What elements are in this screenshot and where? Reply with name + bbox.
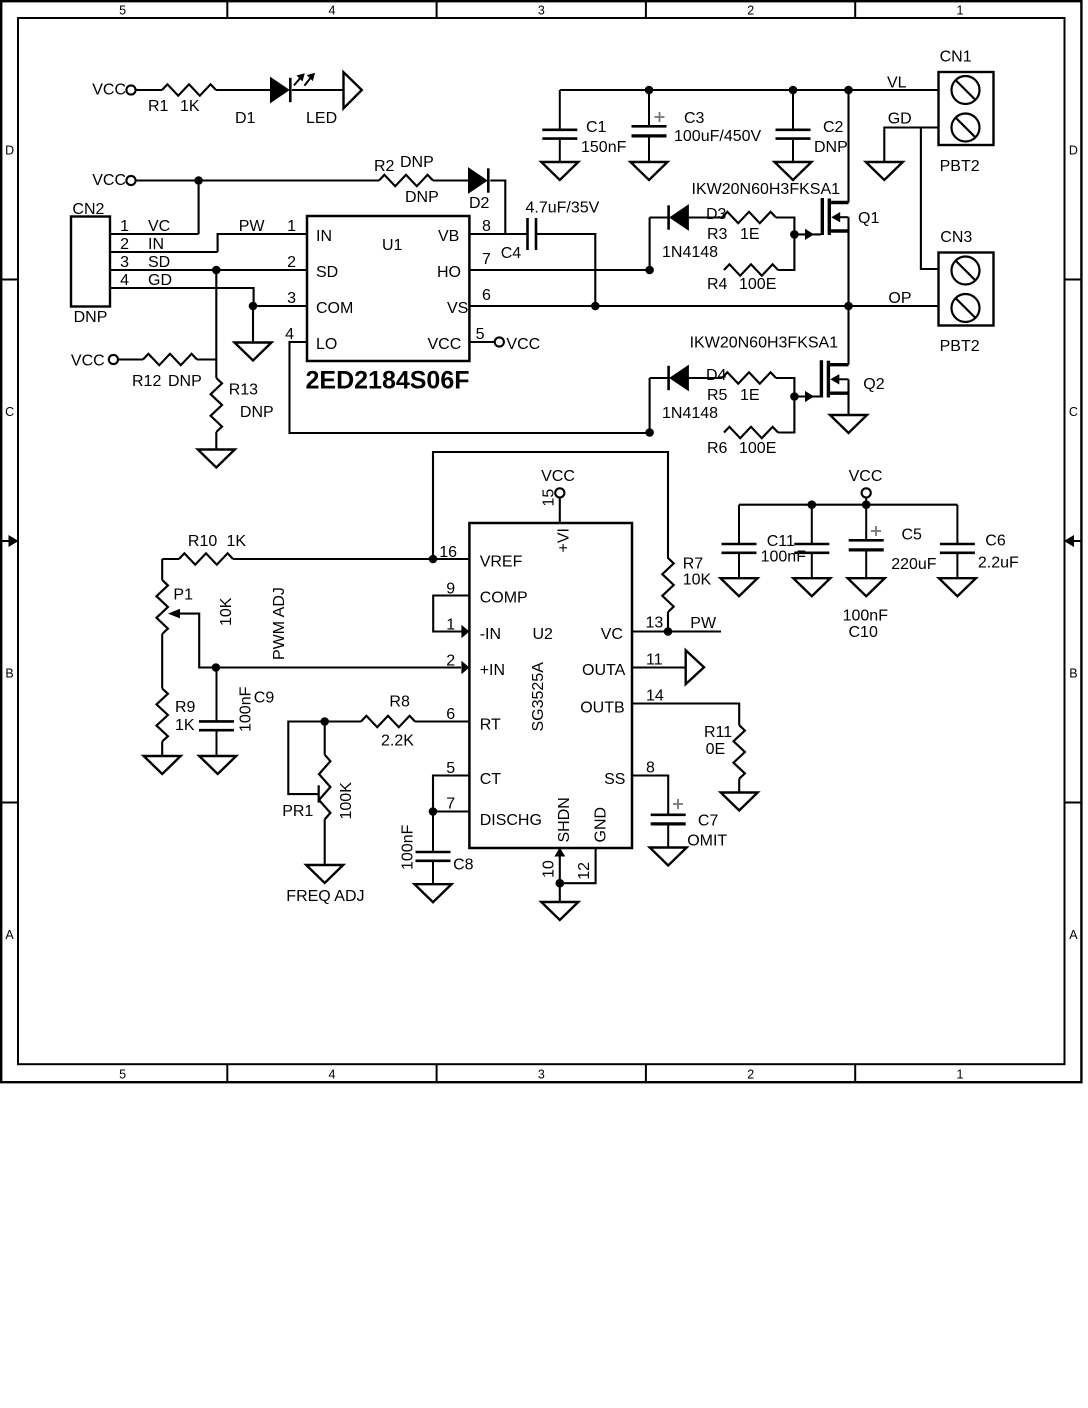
svg-text:R4: R4 <box>707 276 728 293</box>
svg-text:C: C <box>5 405 14 419</box>
svg-text:IN: IN <box>316 228 332 245</box>
junction node COM/GD <box>249 302 258 311</box>
svg-text:+VI: +VI <box>556 528 573 552</box>
svg-text:C7: C7 <box>698 813 719 830</box>
ground <box>866 162 903 180</box>
svg-text:R13: R13 <box>229 382 258 399</box>
svg-text:CN2: CN2 <box>72 201 104 218</box>
svg-text:OP: OP <box>888 290 911 307</box>
resistor R1 <box>162 84 216 95</box>
port flag LED <box>344 72 362 108</box>
junction node VC <box>664 627 673 636</box>
svg-text:D: D <box>5 143 14 157</box>
svg-text:100nF: 100nF <box>238 686 255 732</box>
svg-text:R3: R3 <box>707 226 728 243</box>
ground <box>848 578 885 596</box>
junction node Q2 gate <box>790 392 799 401</box>
svg-text:6: 6 <box>482 287 491 304</box>
svg-text:100nF: 100nF <box>843 608 889 625</box>
wire <box>136 89 162 91</box>
wire to ground <box>252 306 254 343</box>
svg-text:C1: C1 <box>586 119 607 136</box>
svg-text:IKW20N60H3FKSA1: IKW20N60H3FKSA1 <box>692 181 841 198</box>
wire COM <box>253 305 307 307</box>
wire <box>136 179 379 181</box>
svg-text:5: 5 <box>446 760 455 777</box>
wire gate lead Q2 <box>794 395 820 397</box>
junction node C3 <box>645 86 654 95</box>
svg-text:VCC: VCC <box>92 172 126 189</box>
capacitor C3 <box>648 90 650 126</box>
svg-text:3: 3 <box>538 1068 545 1082</box>
svg-text:OMIT: OMIT <box>687 833 727 850</box>
U2 pin 13 VC <box>632 630 721 632</box>
CN2 pin 3 SD <box>110 269 307 271</box>
svg-text:PW: PW <box>239 218 266 235</box>
svg-text:R2: R2 <box>374 158 395 175</box>
U2 pin 6 RT <box>415 720 469 722</box>
resistor R10 <box>179 553 233 564</box>
svg-text:1E: 1E <box>740 387 760 404</box>
svg-text:R1: R1 <box>148 98 169 115</box>
svg-text:3: 3 <box>120 254 129 271</box>
wire <box>778 397 794 433</box>
wire VREF to R7 <box>433 452 668 559</box>
CN2 pin 2 IN <box>110 251 218 253</box>
svg-text:PBT2: PBT2 <box>940 158 980 175</box>
svg-text:LED: LED <box>306 110 337 127</box>
junction node C10 <box>808 500 817 509</box>
ground <box>541 162 578 180</box>
diode D4 <box>670 366 688 391</box>
svg-text:DNP: DNP <box>74 309 108 326</box>
wire VCC rail lower <box>739 504 957 506</box>
svg-text:C4: C4 <box>501 245 522 262</box>
U2 pin 14 OUTB <box>632 704 739 726</box>
svg-text:VL: VL <box>887 75 907 92</box>
svg-text:4: 4 <box>120 272 129 289</box>
svg-text:PBT2: PBT2 <box>940 338 980 355</box>
svg-text:9: 9 <box>446 581 455 598</box>
diode D3 <box>670 205 688 230</box>
wire <box>197 358 216 360</box>
svg-text:R6: R6 <box>707 440 728 457</box>
svg-text:R11: R11 <box>704 724 732 741</box>
svg-text:150nF: 150nF <box>581 139 627 156</box>
VCC pin at U2 <box>555 488 564 497</box>
svg-text:2.2uF: 2.2uF <box>978 555 1019 572</box>
svg-text:+IN: +IN <box>480 662 505 679</box>
svg-text:RT: RT <box>480 717 501 734</box>
junction node C2 <box>789 86 798 95</box>
svg-text:2: 2 <box>120 236 129 253</box>
svg-text:16: 16 <box>439 544 457 561</box>
wire VL rail <box>560 89 939 91</box>
ground <box>793 578 830 596</box>
svg-text:0E: 0E <box>706 741 726 758</box>
U2 pin 9 COMP <box>433 596 469 632</box>
svg-text:13: 13 <box>646 615 664 632</box>
resistor R3 <box>722 212 776 223</box>
ground <box>939 578 976 596</box>
junction node VREF <box>429 555 438 564</box>
svg-text:1E: 1E <box>740 226 760 243</box>
capacitor C2 <box>792 90 794 129</box>
ground <box>650 848 687 866</box>
svg-text:1: 1 <box>957 4 964 18</box>
svg-text:DISCHG: DISCHG <box>480 812 542 829</box>
svg-text:OUTB: OUTB <box>580 700 624 717</box>
svg-text:PW: PW <box>690 615 717 632</box>
U1 pin 8 VB <box>469 233 527 235</box>
svg-text:2ED2184S06F: 2ED2184S06F <box>306 367 470 395</box>
P1 wiper <box>168 609 180 619</box>
svg-text:4: 4 <box>285 326 294 343</box>
svg-text:IKW20N60H3FKSA1: IKW20N60H3FKSA1 <box>690 335 839 352</box>
wire <box>667 612 669 632</box>
svg-text:1N4148: 1N4148 <box>662 244 718 261</box>
svg-text:VCC: VCC <box>92 82 126 99</box>
wire <box>778 234 794 270</box>
svg-text:SD: SD <box>148 254 170 271</box>
wire <box>649 218 651 271</box>
svg-text:VCC: VCC <box>541 468 575 485</box>
svg-text:Q1: Q1 <box>858 210 879 227</box>
junction node VS/C4 <box>591 302 600 311</box>
wire VC riser <box>198 181 200 235</box>
svg-text:DNP: DNP <box>814 139 848 156</box>
svg-text:PR1: PR1 <box>282 803 313 820</box>
capacitor C4 <box>526 218 529 250</box>
U1 pin 5 VCC <box>469 341 494 343</box>
junction node Q1 drain <box>844 86 853 95</box>
svg-text:100E: 100E <box>739 276 776 293</box>
svg-text:HO: HO <box>437 264 461 281</box>
junction node DISCHG <box>429 807 438 816</box>
wire <box>324 819 326 865</box>
svg-text:5: 5 <box>119 1068 126 1082</box>
junction node LO <box>645 428 654 437</box>
svg-text:R10: R10 <box>188 533 217 550</box>
svg-text:C10: C10 <box>849 624 878 641</box>
transistor Q1 <box>821 198 824 235</box>
diode D2 <box>469 168 487 193</box>
svg-text:100uF/450V: 100uF/450V <box>674 128 762 145</box>
svg-text:10K: 10K <box>683 572 712 589</box>
U2 pin 2 +IN <box>216 666 461 668</box>
resistor R11 <box>734 725 745 779</box>
svg-text:DNP: DNP <box>168 373 202 390</box>
svg-text:R7: R7 <box>683 556 704 573</box>
wire GD <box>884 128 938 162</box>
U2 pin 16 VREF <box>433 558 469 560</box>
svg-text:GD: GD <box>888 111 912 128</box>
wire gate lead Q1 <box>794 233 821 235</box>
U2 pin 7 DISCHG <box>433 810 469 812</box>
svg-text:4: 4 <box>329 4 336 18</box>
svg-text:5: 5 <box>476 326 485 343</box>
wire Q2 drain <box>847 306 849 365</box>
svg-text:100E: 100E <box>739 440 776 457</box>
svg-text:D1: D1 <box>235 110 256 127</box>
wire <box>490 181 505 235</box>
svg-text:14: 14 <box>646 688 664 705</box>
wire <box>233 558 433 560</box>
svg-text:SD: SD <box>316 264 338 281</box>
U2 pin 10 SHDN <box>559 854 561 883</box>
ground <box>830 415 867 433</box>
svg-text:COM: COM <box>316 300 353 317</box>
U2 pin 11 OUTA <box>632 666 686 668</box>
resistor R5 <box>722 372 776 383</box>
wire <box>433 179 469 181</box>
wire SD pulldown riser <box>215 270 217 378</box>
svg-text:VS: VS <box>447 300 468 317</box>
junction node C5 <box>862 500 871 509</box>
ground <box>721 793 758 811</box>
svg-text:D2: D2 <box>469 195 490 212</box>
svg-text:2: 2 <box>287 254 296 271</box>
svg-text:PWM ADJ: PWM ADJ <box>271 587 288 660</box>
junction node VCC/VC <box>194 176 203 185</box>
trimmer PR1 <box>319 755 330 820</box>
capacitor C8 <box>432 812 434 852</box>
wire <box>292 89 344 91</box>
wire <box>776 378 794 397</box>
transistor Q2 <box>820 360 823 397</box>
resistor R7 <box>662 558 673 612</box>
svg-text:D: D <box>1069 143 1078 157</box>
wire <box>738 779 740 793</box>
svg-text:12: 12 <box>576 862 593 880</box>
svg-text:2: 2 <box>747 4 754 18</box>
wire Q1 drain <box>847 90 849 203</box>
LED D1 <box>271 78 289 103</box>
wire <box>688 216 722 218</box>
svg-text:GND: GND <box>593 807 610 843</box>
svg-text:R8: R8 <box>389 694 410 711</box>
svg-text:2: 2 <box>446 653 455 670</box>
CN2 pin 4 GD <box>110 288 254 306</box>
svg-text:LO: LO <box>316 336 337 353</box>
connector CN3 <box>939 253 994 326</box>
U2 pin 15 +VI <box>559 498 561 524</box>
svg-text:10: 10 <box>541 860 558 878</box>
wire <box>650 216 669 218</box>
svg-text:C3: C3 <box>684 110 705 127</box>
svg-text:U1: U1 <box>382 237 403 254</box>
capacitor C1 <box>559 90 561 129</box>
junction node GND <box>556 879 565 888</box>
svg-text:VC: VC <box>148 218 170 235</box>
svg-text:8: 8 <box>482 218 491 235</box>
svg-text:6: 6 <box>446 706 455 723</box>
port flag OUTA <box>686 650 704 684</box>
resistor R13 <box>211 378 222 432</box>
wire <box>215 432 217 450</box>
svg-text:IN: IN <box>148 236 164 253</box>
svg-text:C11: C11 <box>767 533 795 550</box>
svg-text:11: 11 <box>646 652 663 669</box>
svg-text:1K: 1K <box>227 533 247 550</box>
wire <box>324 722 326 755</box>
wire PR1 loop <box>288 722 324 795</box>
connector CN2 <box>71 217 110 307</box>
resistor R6 <box>724 427 778 438</box>
svg-text:SHDN: SHDN <box>556 797 573 842</box>
svg-text:VC: VC <box>601 626 623 643</box>
resistor R2 <box>379 175 433 186</box>
capacitor C11 <box>738 505 740 544</box>
svg-text:7: 7 <box>446 796 455 813</box>
capacitor C5 <box>865 505 867 540</box>
resistor R12 <box>143 354 197 365</box>
wire Q2 source <box>847 379 849 415</box>
svg-text:4: 4 <box>329 1068 336 1082</box>
svg-text:VCC: VCC <box>71 353 105 370</box>
ground <box>306 865 343 883</box>
wire Q1 source to OP <box>847 217 849 306</box>
svg-text:3: 3 <box>287 290 296 307</box>
svg-text:1N4148: 1N4148 <box>662 405 718 422</box>
junction node OP <box>844 302 853 311</box>
wire <box>649 378 651 433</box>
svg-text:GD: GD <box>148 272 172 289</box>
svg-text:DNP: DNP <box>400 154 434 171</box>
svg-text:100nF: 100nF <box>761 549 807 566</box>
svg-text:DNP: DNP <box>240 404 274 421</box>
svg-text:C6: C6 <box>985 533 1006 550</box>
U1 pin 4 LO <box>290 342 650 433</box>
capacitor C10 <box>811 505 813 544</box>
potentiometer P1 <box>157 580 168 634</box>
U1 pin 7 HO <box>469 269 649 271</box>
svg-text:VCC: VCC <box>428 336 462 353</box>
svg-text:C5: C5 <box>902 527 923 544</box>
wire <box>118 358 143 360</box>
svg-text:1: 1 <box>287 218 296 235</box>
wire <box>776 218 794 235</box>
svg-text:A: A <box>1069 928 1078 942</box>
svg-text:C9: C9 <box>254 690 275 707</box>
svg-text:C8: C8 <box>453 857 474 874</box>
svg-text:1: 1 <box>446 617 455 634</box>
svg-text:SS: SS <box>604 771 625 788</box>
svg-text:VREF: VREF <box>480 554 523 571</box>
svg-text:R5: R5 <box>707 387 728 404</box>
resistor R8 <box>361 716 415 727</box>
junction node RT <box>320 717 329 726</box>
capacitor C9 <box>216 668 218 721</box>
svg-text:1K: 1K <box>175 717 195 734</box>
svg-text:1: 1 <box>120 218 129 235</box>
svg-text:U2: U2 <box>533 626 554 643</box>
U2 pin 8 SS <box>632 776 668 814</box>
junction node Q1 gate <box>790 230 799 239</box>
U2 pin 12 GND <box>560 848 596 883</box>
svg-text:100nF: 100nF <box>400 824 417 870</box>
junction node HO <box>645 266 654 275</box>
wire <box>650 377 669 379</box>
wire <box>216 89 271 91</box>
svg-text:R9: R9 <box>175 699 196 716</box>
svg-text:CN1: CN1 <box>940 49 972 66</box>
svg-text:C2: C2 <box>823 119 844 136</box>
PR1 wiper <box>318 785 320 802</box>
svg-text:1: 1 <box>957 1068 964 1082</box>
svg-text:A: A <box>5 928 14 942</box>
svg-text:CN3: CN3 <box>940 229 972 246</box>
svg-text:7: 7 <box>482 251 491 268</box>
svg-text:FREQ ADJ: FREQ ADJ <box>286 888 364 905</box>
svg-text:B: B <box>1069 666 1077 680</box>
ground <box>541 902 578 920</box>
svg-text:100K: 100K <box>338 782 355 820</box>
svg-text:CT: CT <box>480 771 502 788</box>
svg-text:-IN: -IN <box>480 626 501 643</box>
ground <box>415 884 452 902</box>
resistor R4 <box>724 264 778 275</box>
wire GD to CN3 <box>921 128 939 270</box>
junction node +IN <box>212 663 221 672</box>
svg-text:OUTA: OUTA <box>582 662 626 679</box>
ground <box>721 578 758 596</box>
wire <box>162 558 179 560</box>
svg-text:4.7uF/35V: 4.7uF/35V <box>526 200 600 217</box>
U2 pin 1 -IN <box>461 625 469 639</box>
U1 pin 1 IN <box>218 234 307 252</box>
svg-text:8: 8 <box>646 760 655 777</box>
svg-text:5: 5 <box>119 4 126 18</box>
svg-text:SG3525A: SG3525A <box>530 662 547 732</box>
VCC pin at U1 pin5 <box>495 337 504 346</box>
op-amp U1 box <box>307 216 469 361</box>
ground <box>198 450 235 468</box>
ground <box>235 343 272 361</box>
junction node SD <box>212 266 221 275</box>
wire <box>688 377 722 379</box>
svg-text:B: B <box>5 666 13 680</box>
svg-text:R12: R12 <box>132 373 161 390</box>
ground <box>631 162 668 180</box>
resistor R9 <box>157 689 168 742</box>
ground <box>775 162 812 180</box>
svg-text:VB: VB <box>438 228 459 245</box>
svg-text:Q2: Q2 <box>863 376 884 393</box>
capacitor C7 <box>673 803 683 805</box>
wire <box>161 742 163 757</box>
svg-text:10K: 10K <box>218 597 235 626</box>
wire <box>325 720 361 722</box>
wire <box>559 883 561 902</box>
svg-text:VCC: VCC <box>849 468 883 485</box>
svg-text:VCC: VCC <box>506 336 540 353</box>
svg-text:1K: 1K <box>180 98 200 115</box>
svg-text:220uF: 220uF <box>891 556 937 573</box>
svg-text:2: 2 <box>747 1068 754 1082</box>
connector CN1 <box>939 72 994 145</box>
svg-text:3: 3 <box>538 4 545 18</box>
svg-text:P1: P1 <box>173 587 193 604</box>
wire <box>161 634 163 689</box>
CN2 pin 1 VC <box>110 233 199 235</box>
LED arrows <box>294 76 302 86</box>
U2 pin 5 CT <box>433 776 469 812</box>
ground <box>199 756 236 774</box>
svg-text:COMP: COMP <box>480 590 528 607</box>
svg-text:2.2K: 2.2K <box>381 733 414 750</box>
ground <box>144 756 181 774</box>
